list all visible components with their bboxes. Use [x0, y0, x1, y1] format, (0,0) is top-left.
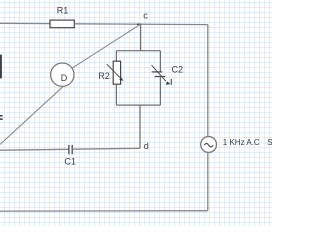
- wire: C1 horizontal right segment to node d elbow: [72, 147, 140, 150]
- wire: bridge diagonal lower (detector to bottom-left, clipped at edge): [0, 86, 63, 144]
- detector D: [51, 63, 74, 86]
- AC source: [201, 137, 217, 153]
- svg-text:d: d: [144, 141, 149, 151]
- wire: bottom horizontal: [0, 210, 208, 212]
- wire: top horizontal left segment: [0, 22, 50, 24]
- svg-text:1 KHz A.C: 1 KHz A.C: [223, 138, 260, 147]
- capacitor C1: [64, 145, 76, 167]
- wire: right vertical upper (corner to AC source): [207, 25, 209, 137]
- wire: top horizontal from R1 to node c and to right corner: [74, 23, 208, 26]
- svg-text:R2: R2: [98, 71, 110, 81]
- resistor R1: [50, 5, 74, 27]
- resistor on left wire (clipped at left edge): [0, 55, 2, 79]
- svg-text:c: c: [143, 11, 148, 21]
- wire: right vertical lower (AC source to bottom corner): [207, 152, 209, 210]
- svg-text:C1: C1: [64, 157, 76, 167]
- capacitor C2 (variable): [152, 65, 183, 85]
- wire: loop right branch upper: [159, 51, 161, 72]
- wire: vertical from node c down to parallel loop: [140, 24, 142, 51]
- wire: loop left branch upper: [115, 51, 117, 62]
- wire: vertical from loop bottom to node d: [139, 105, 141, 148]
- svg-text:Source: Source: [267, 138, 272, 147]
- wire: loop right branch lower: [159, 77, 161, 106]
- wire: loop bottom edge: [116, 104, 160, 106]
- svg-text:C2: C2: [172, 65, 184, 75]
- label (clipped at left edge): [0, 115, 3, 120]
- node c junction dot: [137, 24, 141, 26]
- wire: bridge diagonal upper (node c to detector): [72, 24, 141, 68]
- resistor R2 (variable): [98, 61, 123, 84]
- svg-text:R1: R1: [57, 5, 69, 15]
- svg-text:D: D: [61, 73, 68, 83]
- wire: loop top edge: [116, 50, 160, 52]
- wire: C1 horizontal left segment: [0, 148, 69, 151]
- wire: loop left branch lower: [115, 84, 117, 105]
